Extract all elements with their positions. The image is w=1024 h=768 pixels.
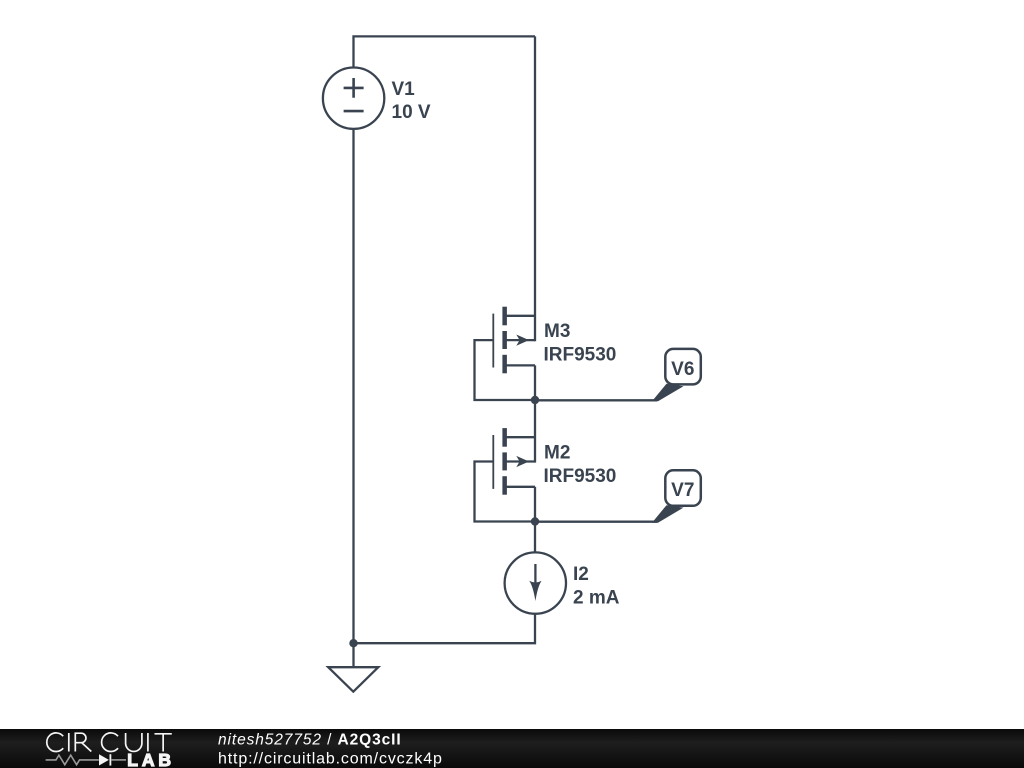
wire: right rail from top corner down to M3 body tie bbox=[534, 36, 536, 341]
svg-text:2 mA: 2 mA bbox=[573, 587, 620, 608]
wire: M2 drain rail down to node V7 bbox=[534, 487, 536, 522]
label V1 10 V bbox=[392, 79, 431, 123]
net flag V6 bbox=[652, 349, 701, 401]
wire: top rail from V1 top to right rail bbox=[354, 36, 536, 67]
svg-text:nitesh527752 / A2Q3cII: nitesh527752 / A2Q3cII bbox=[218, 732, 402, 749]
wire: M3 drain rail down to node V6 bbox=[534, 365, 536, 400]
net flag V7 bbox=[652, 470, 701, 522]
svg-text:I2: I2 bbox=[573, 564, 589, 585]
svg-text:V1: V1 bbox=[392, 79, 416, 100]
node V7 junction dot bbox=[531, 517, 539, 525]
node V6 junction dot bbox=[531, 396, 539, 404]
svg-text:IRF9530: IRF9530 bbox=[544, 466, 617, 487]
wire: node V7 to flag bbox=[535, 521, 657, 523]
footer text url bbox=[218, 751, 443, 768]
transistor M2 (PMOS IRF9530) bbox=[493, 428, 535, 495]
svg-text:http://circuitlab.com/cvczk4p: http://circuitlab.com/cvczk4p bbox=[218, 751, 443, 768]
svg-text:IRF9530: IRF9530 bbox=[544, 345, 617, 366]
wire: node V6 down to M2 body tie bbox=[534, 400, 536, 463]
current source I2 bbox=[505, 552, 566, 613]
ground bbox=[328, 643, 378, 692]
wire: node V7 down to I2 top bbox=[534, 522, 536, 553]
svg-text:M3: M3 bbox=[544, 321, 570, 342]
svg-text:V6: V6 bbox=[671, 359, 694, 380]
wire: node V6 to flag bbox=[535, 399, 657, 401]
svg-text:V7: V7 bbox=[671, 480, 694, 501]
junction dot at ground node bbox=[349, 639, 357, 647]
label I2 2 mA bbox=[573, 564, 620, 608]
svg-text:M2: M2 bbox=[544, 443, 570, 464]
wire: I2 bottom to bottom rail bbox=[354, 614, 536, 643]
footer text username / title bbox=[218, 732, 402, 749]
footer logo LAB bbox=[127, 750, 175, 768]
footer logo resistor-diode bbox=[46, 754, 126, 765]
footer logo CIRCUIT bbox=[47, 733, 172, 752]
wire: M2 gate to drain (diode connection) bbox=[475, 462, 536, 522]
voltage source V1 bbox=[323, 68, 384, 129]
svg-text:10 V: 10 V bbox=[392, 102, 431, 123]
transistor M3 (PMOS IRF9530) bbox=[493, 307, 535, 374]
wire: M3 gate to drain (diode connection) bbox=[475, 340, 536, 400]
label M2 IRF9530 bbox=[544, 443, 617, 487]
wire: left rail from V1 bottom down to bottom corner bbox=[352, 129, 354, 643]
footer bar bbox=[0, 729, 1024, 768]
svg-text:LAB: LAB bbox=[127, 750, 175, 768]
label M3 IRF9530 bbox=[544, 321, 617, 365]
